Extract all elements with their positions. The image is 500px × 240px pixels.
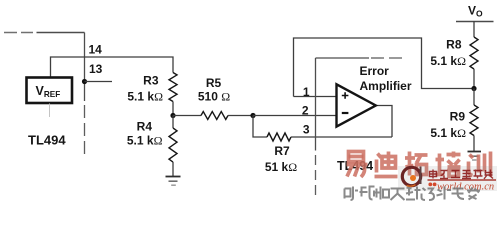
wire: op-amp output down to pin 3 line (376, 106, 392, 138)
node C junction dot (471, 86, 476, 91)
terminal VO (456, 4, 494, 22)
wire: feedback from output divider node C to pin 1 (294, 38, 475, 97)
svg-text:13: 13 (89, 62, 103, 76)
resistor R5 (198, 76, 230, 120)
svg-text:5.1 kΩ: 5.1 kΩ (127, 134, 163, 148)
wire: pin 1 into op-amp + input (294, 96, 337, 98)
wire: R8 to node C (473, 69, 475, 89)
wire: node A to R5 (173, 115, 201, 117)
wire: node A down to R4 (172, 116, 174, 129)
wire: node B to op-amp pin 2 (253, 115, 337, 117)
svg-text:R3: R3 (143, 74, 159, 88)
voltage reference block VREF (27, 78, 73, 104)
watermark: big red CJK characters (347, 152, 491, 178)
watermark: EEWorld round logo (402, 167, 420, 187)
watermark: eeworld.com.cn script (428, 181, 494, 192)
svg-text:2: 2 (302, 103, 309, 117)
svg-text:R5: R5 (206, 76, 222, 90)
wire: R3 to node A (172, 102, 174, 116)
watermark: gray CJK characters (345, 187, 481, 201)
TL494 left chip boundary: right edge (solid then dashed) (84, 33, 86, 155)
svg-text:R7: R7 (274, 144, 290, 158)
watermark: small dark red CJK "电子工程世界" (430, 170, 494, 180)
svg-text:R8: R8 (446, 37, 462, 51)
svg-text:5.1 kΩ: 5.1 kΩ (430, 54, 466, 68)
watermark: EEWorld logo backdrop (398, 166, 497, 191)
resistor R9 (430, 105, 478, 140)
resistor R4 (127, 120, 177, 163)
TL494 right chip boundary (solid then dashed) (316, 58, 407, 196)
svg-text:3: 3 (303, 123, 310, 137)
wire: R4 to ground (172, 162, 174, 177)
op-amp U1: error amplifier triangle (337, 84, 376, 126)
wire: R9 to ground (473, 136, 475, 152)
svg-text:14: 14 (89, 42, 103, 56)
svg-text:5.1 kΩ: 5.1 kΩ (430, 126, 466, 140)
svg-text:R9: R9 (450, 110, 466, 124)
svg-text:Error: Error (360, 64, 390, 78)
svg-text:Amplifier: Amplifier (360, 79, 412, 93)
TL494 left chip boundary: dashed top edge (4, 32, 85, 34)
svg-text:510 Ω: 510 Ω (198, 90, 230, 104)
node: pin 13 junction dot (82, 79, 87, 84)
resistor R8 (430, 37, 478, 69)
node B junction dot (250, 113, 255, 118)
svg-text:world.com.cn: world.com.cn (437, 181, 494, 192)
wire: pin 13 stub (85, 81, 113, 83)
svg-text:TL494: TL494 (28, 132, 66, 147)
wire: R7 to pin 3 and along to output corner (291, 136, 392, 138)
label: Error Amplifier (360, 64, 412, 93)
wire: node C to R9 (473, 89, 475, 106)
svg-text:51 kΩ: 51 kΩ (265, 160, 297, 174)
ground (right) (468, 152, 482, 161)
resistor R7 (265, 133, 297, 174)
wire: R5 to node B (228, 115, 253, 117)
svg-text:1: 1 (303, 85, 310, 99)
ground (left) (166, 177, 181, 186)
wire: node B down to R7 (253, 116, 267, 138)
resistor R3 (127, 73, 177, 104)
svg-text:5.1 kΩ: 5.1 kΩ (127, 89, 163, 103)
wire: VREF output up to pin 14 line and across to R3 (51, 57, 174, 78)
stub below VREF box (49, 104, 51, 118)
node A junction dot (170, 113, 175, 118)
watermark: dark red underline (428, 179, 497, 181)
wire: VO to R8 (473, 21, 475, 37)
svg-text:R4: R4 (137, 120, 153, 134)
